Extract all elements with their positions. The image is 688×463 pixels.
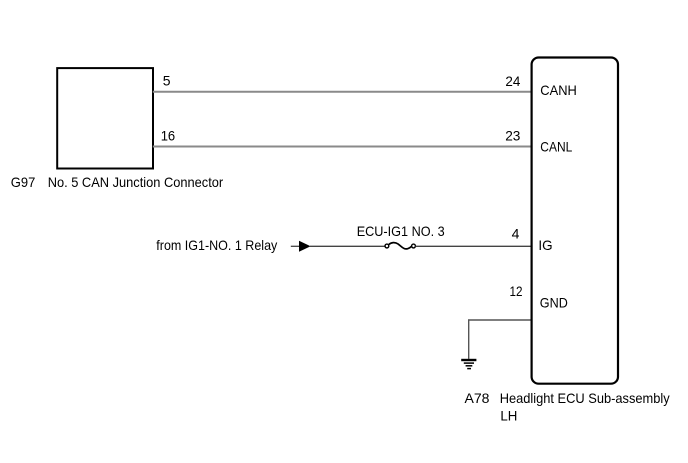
wire GND vertical drop <box>468 319 470 359</box>
wire CANL (G97 pin 16 to A78 pin 23) <box>153 146 531 148</box>
connector G97 (No. 5 CAN Junction Connector) box <box>57 68 153 168</box>
wire GND horizontal (A78 pin 12) <box>468 319 530 321</box>
svg-text:LH: LH <box>500 408 517 424</box>
svg-text:from IG1-NO. 1 Relay: from IG1-NO. 1 Relay <box>156 237 277 253</box>
svg-text:G97: G97 <box>11 174 36 190</box>
svg-text:12: 12 <box>510 283 523 299</box>
svg-text:23: 23 <box>505 128 520 144</box>
ECU A78 (Headlight ECU Sub-assembly LH) box <box>532 58 618 384</box>
arrow from IG1-NO. 1 Relay <box>299 241 311 252</box>
wire from relay arrow lead <box>291 245 300 247</box>
svg-text:CANL: CANL <box>540 139 572 155</box>
svg-text:GND: GND <box>540 294 568 310</box>
svg-text:16: 16 <box>161 128 176 144</box>
svg-text:24: 24 <box>505 73 520 89</box>
svg-text:A78: A78 <box>465 390 490 406</box>
fuse ECU-IG1 NO. 3 <box>385 243 415 249</box>
svg-text:Headlight ECU Sub-assembly: Headlight ECU Sub-assembly <box>500 390 670 406</box>
wire arrow to fuse <box>310 245 385 247</box>
svg-text:ECU-IG1 NO. 3: ECU-IG1 NO. 3 <box>357 223 445 239</box>
svg-text:IG: IG <box>538 237 552 253</box>
svg-text:No. 5 CAN Junction Connector: No. 5 CAN Junction Connector <box>48 174 224 190</box>
wire fuse to A78 pin 4 (IG) <box>416 245 531 247</box>
wire CANH (G97 pin 5 to A78 pin 24) <box>153 91 531 93</box>
svg-text:5: 5 <box>163 73 171 89</box>
ground symbol <box>461 360 476 369</box>
svg-text:4: 4 <box>512 225 520 241</box>
svg-text:CANH: CANH <box>540 82 577 98</box>
